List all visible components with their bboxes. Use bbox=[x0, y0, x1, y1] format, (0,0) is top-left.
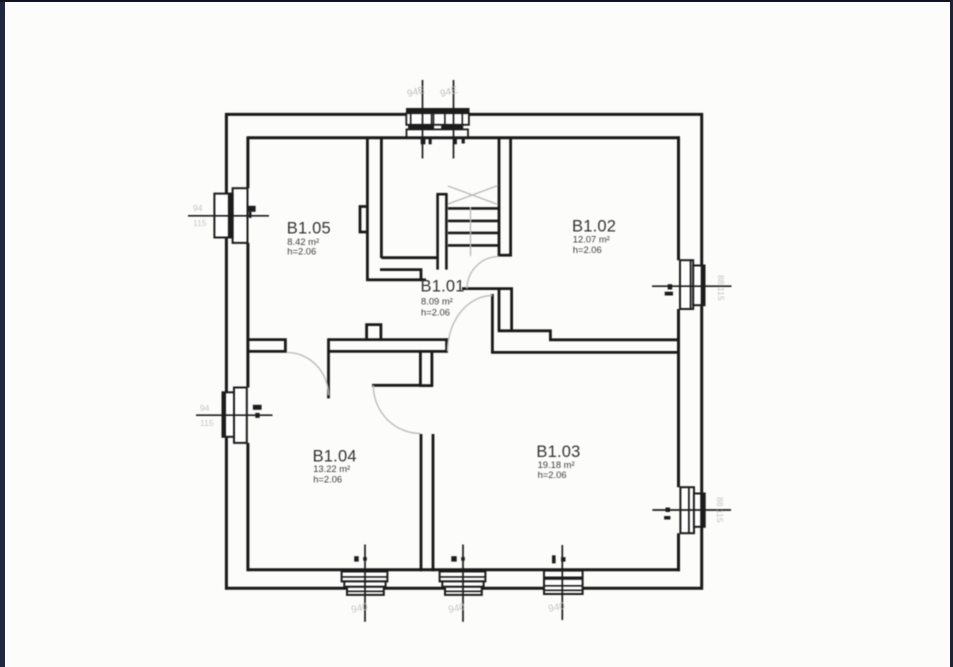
stair break diagonal 1 bbox=[448, 186, 498, 205]
top window sill band bbox=[407, 129, 469, 137]
left window1 centerline bbox=[188, 215, 269, 217]
stair stringer inner line bbox=[445, 194, 448, 269]
B1.02 bottom wall upper step line bbox=[498, 331, 680, 340]
right window1 sash rect bbox=[693, 266, 704, 306]
right navy border bar bbox=[950, 0, 953, 667]
west band right cap bbox=[445, 338, 448, 352]
west band left cap and door leaf B1.05 bbox=[327, 338, 330, 398]
bottom sym1 band2 bbox=[344, 581, 385, 586]
stair stringer top cap bbox=[436, 193, 447, 196]
svg-text:8.09 m²: 8.09 m² bbox=[421, 296, 453, 307]
left window2 sash rect bbox=[223, 392, 235, 437]
bottom sym2 band3 bbox=[445, 587, 482, 595]
left window1 tick bar bbox=[248, 206, 255, 212]
bottom sym2 band2 bbox=[442, 581, 483, 586]
right window2 inner mullion bbox=[688, 487, 690, 533]
left window2 tick bar bbox=[253, 405, 262, 410]
bottom sym1 black glyph bbox=[354, 556, 359, 561]
duct shaft right line bbox=[510, 289, 513, 331]
left window1 sash rect bbox=[214, 194, 232, 238]
right window1 tick square bbox=[668, 284, 673, 289]
left window2 tick square bbox=[255, 413, 259, 418]
left navy border bar bbox=[0, 0, 5, 667]
top window mullions bbox=[411, 113, 463, 125]
door leaf B1.02 bbox=[462, 287, 513, 290]
stub band left line bbox=[419, 351, 422, 385]
wall B1.05 right band inner line bbox=[380, 137, 383, 258]
right window2 sash rect bbox=[694, 494, 705, 527]
top navy border bar bbox=[0, 0, 953, 2]
stair right wall inner line bbox=[509, 137, 512, 256]
stair room bottom band bottom line with jog bbox=[380, 270, 421, 280]
stair treads bbox=[448, 208, 498, 245]
stair break diagonal 2 bbox=[448, 186, 498, 205]
svg-text:h=2.06: h=2.06 bbox=[421, 307, 450, 318]
stair stringer outer line bbox=[436, 194, 439, 269]
bottom sym2 centerline bbox=[462, 545, 464, 622]
right window2 tick bar bbox=[664, 516, 670, 520]
right window1 sash black bar bbox=[701, 266, 705, 306]
arc door B1.03 bbox=[448, 296, 493, 352]
top window sill tick 1 bbox=[421, 138, 426, 144]
svg-text:115: 115 bbox=[193, 218, 207, 228]
inner wall top line bbox=[248, 136, 680, 139]
bottom sym3 line2 bbox=[544, 589, 583, 591]
svg-text:115: 115 bbox=[200, 418, 214, 428]
outer wall top line bbox=[225, 113, 703, 116]
bottom sym1 centerline bbox=[364, 545, 366, 622]
bottom sym3 centerline bbox=[561, 545, 563, 620]
bottom sym3 black glyph bbox=[552, 555, 556, 563]
arc door B1.05 bbox=[287, 352, 329, 395]
stair walk line bbox=[470, 207, 472, 256]
divider band B1.04/B1.03 left line bbox=[420, 434, 423, 571]
bottom sym2 band1 bbox=[440, 572, 486, 582]
left window1 inner rect bbox=[233, 188, 248, 243]
top window head bar bbox=[406, 108, 470, 114]
inner wall bottom line bbox=[248, 568, 680, 571]
bottom sym2 band1 midline bbox=[440, 576, 486, 578]
stair room bottom band top line bbox=[381, 256, 437, 259]
inner wall left line bbox=[246, 136, 249, 571]
top window frame band bbox=[406, 113, 469, 125]
west band top line bbox=[329, 338, 447, 341]
svg-text:94: 94 bbox=[193, 203, 203, 213]
stub band bottom cap bbox=[419, 384, 433, 387]
door leaf B1.04 bbox=[372, 384, 419, 387]
bottom sym1 band3 midline bbox=[347, 590, 384, 592]
outer wall bottom line bbox=[225, 587, 703, 590]
bottom sym1 band1 midline bbox=[342, 576, 388, 578]
bottom sym3 rect bbox=[544, 571, 583, 594]
bottom sym3 thick bar bbox=[544, 577, 583, 580]
arc door B1.02 bbox=[467, 257, 499, 289]
svg-text:h=2.06: h=2.06 bbox=[287, 246, 316, 257]
top window sill tick 2 bbox=[429, 139, 432, 145]
stair right wall outer line bbox=[498, 137, 501, 256]
duct shaft left line bbox=[498, 289, 501, 331]
bottom sym2 black glyph bbox=[451, 556, 456, 561]
bottom sym3 line1 bbox=[544, 585, 583, 587]
door swing arcs bbox=[287, 257, 500, 434]
pilaster bump on west band bbox=[367, 325, 381, 340]
svg-text:B1.01: B1.01 bbox=[421, 278, 465, 296]
top window sash bar left bbox=[408, 125, 434, 130]
svg-text:h=2.06: h=2.06 bbox=[538, 469, 567, 480]
right window1 inner rect bbox=[680, 260, 693, 309]
bottom sym3 black dot bbox=[561, 557, 566, 562]
bottom sym1 black dot bbox=[363, 557, 367, 561]
top window sill tick 3 bbox=[454, 138, 457, 144]
stair right wall bottom cap bbox=[498, 254, 512, 257]
right window1 inner mullion bbox=[690, 260, 692, 309]
stair bbox=[436, 194, 498, 269]
right window2 centerline bbox=[652, 509, 731, 511]
outer wall left line bbox=[225, 113, 228, 590]
wall B1.05 right band outer line bbox=[366, 137, 369, 280]
right window1 centerline bbox=[652, 285, 732, 287]
door leaf B1.03 bbox=[491, 294, 494, 352]
left window2 sash black bar bbox=[223, 392, 227, 437]
svg-text:88: 88 bbox=[716, 275, 726, 285]
svg-text:h=2.06: h=2.06 bbox=[313, 474, 342, 485]
top window sash bar right bbox=[441, 125, 463, 130]
west band bottom line bbox=[329, 350, 447, 353]
svg-text:115: 115 bbox=[715, 509, 725, 523]
top window sill tick 4 bbox=[462, 139, 465, 144]
right window2 inner rect bbox=[680, 487, 694, 533]
outer wall right line bbox=[700, 113, 703, 590]
svg-text:13.22 m²: 13.22 m² bbox=[313, 463, 350, 474]
bottom sym1 band3 bbox=[347, 587, 384, 595]
stub band right line bbox=[430, 352, 433, 385]
svg-text:94: 94 bbox=[200, 403, 210, 413]
hall top thin wall line bbox=[366, 278, 426, 281]
left stub band outline bbox=[247, 340, 285, 352]
svg-text:115: 115 bbox=[716, 287, 726, 301]
svg-text:h=2.06: h=2.06 bbox=[573, 244, 602, 255]
svg-text:88: 88 bbox=[715, 497, 725, 507]
left window2 centerline bbox=[196, 414, 273, 416]
left window1 sash black bar bbox=[228, 194, 233, 238]
bottom sym2 black dot bbox=[461, 557, 465, 561]
right window2 tick square bbox=[666, 508, 671, 513]
top window centerline right bbox=[453, 80, 455, 159]
divider band B1.04/B1.03 right line bbox=[432, 434, 435, 571]
south band bottom line bbox=[491, 351, 680, 354]
svg-text:B1.05: B1.05 bbox=[287, 220, 331, 238]
svg-text:12.07 m²: 12.07 m² bbox=[573, 234, 610, 245]
bottom sym1 band1 bbox=[342, 572, 388, 582]
chimney bump on B1.05 wall bbox=[360, 207, 367, 233]
left window2 inner rect bbox=[234, 388, 247, 443]
bottom sym2 band3 midline bbox=[445, 590, 482, 592]
inner wall right line bbox=[677, 136, 680, 571]
right window1 tick bar bbox=[665, 292, 673, 296]
right window2 sash black bar bbox=[700, 494, 705, 527]
top window centerline left bbox=[422, 80, 424, 159]
arc door B1.04 bbox=[373, 385, 420, 433]
left window1 tick square bbox=[249, 212, 252, 218]
